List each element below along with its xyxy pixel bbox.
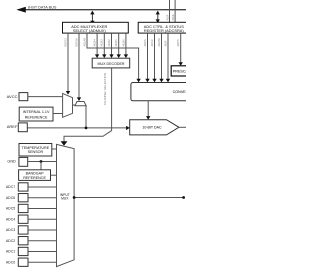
svg-text:ADPS: ADPS — [176, 39, 180, 46]
wire ADC3 to mux — [28, 229, 57, 231]
wire MUX1 — [117, 33, 121, 58]
pin ADC2 — [6, 237, 28, 245]
svg-text:AVCC: AVCC — [7, 94, 18, 99]
svg-text:MUX: MUX — [61, 197, 69, 201]
svg-text:ADIF: ADIF — [163, 40, 167, 46]
svg-text:ADIE: ADIE — [171, 14, 175, 20]
svg-text:AREF: AREF — [7, 124, 18, 129]
svg-text:PRESCALER: PRESCALER — [173, 70, 186, 74]
svg-text:MUX3: MUX3 — [100, 39, 104, 47]
pin GND — [7, 157, 27, 166]
wire GND to bandgap — [40, 162, 42, 170]
wire ADPS to prescaler — [179, 33, 183, 66]
svg-text:ADC3: ADC3 — [6, 228, 15, 232]
wire MUX4 — [95, 33, 99, 58]
block CONVERSION LOGIC — [131, 83, 252, 101]
svg-text:ADC2: ADC2 — [6, 239, 15, 243]
wire ADLAR — [87, 33, 141, 82]
wire ADSC — [152, 33, 156, 82]
svg-text:MUX4: MUX4 — [93, 39, 97, 47]
svg-text:ADSC: ADSC — [150, 39, 154, 46]
wire MUX0 — [124, 33, 128, 58]
wire REFS1 — [66, 33, 70, 95]
wire ADC2 to mux — [28, 240, 57, 242]
svg-text:REFERENCE: REFERENCE — [25, 115, 48, 119]
svg-text:ADC7: ADC7 — [6, 185, 15, 189]
wire ADC6 to mux — [28, 197, 57, 199]
svg-text:MUX DECODER: MUX DECODER — [98, 62, 125, 66]
wire ADC7 to mux — [28, 186, 57, 188]
svg-text:ADEN: ADEN — [143, 39, 147, 46]
register ADCSRA — [138, 22, 200, 33]
wire GND to input mux — [28, 161, 57, 163]
svg-text:CHANNEL SELECTION: CHANNEL SELECTION — [103, 73, 107, 105]
wire temperature sensor to mux — [52, 148, 57, 150]
wire REFS0 — [77, 33, 81, 101]
wire ADMUX bus double-arrow — [90, 11, 94, 25]
prescaler PRESCALER — [171, 66, 196, 76]
pin ADC4 — [6, 215, 28, 223]
pin ADC1 — [6, 247, 28, 255]
pin AVCC — [7, 93, 28, 101]
svg-text:MUX1: MUX1 — [114, 39, 118, 47]
wire bandgap to mux — [51, 174, 57, 176]
svg-text:ADC1: ADC1 — [6, 250, 15, 254]
svg-text:ADC4: ADC4 — [6, 217, 15, 221]
svg-text:MUX0: MUX0 — [121, 39, 125, 47]
dac 10-BIT DAC — [130, 120, 179, 135]
svg-text:10-BIT DAC: 10-BIT DAC — [142, 126, 162, 130]
wire ADC1 to mux — [28, 250, 57, 252]
wire ADC5 to mux — [28, 207, 57, 209]
svg-text:MUX2: MUX2 — [107, 39, 111, 47]
pin ADC6 — [6, 194, 28, 202]
block INTERNAL 1.1V REFERENCE — [19, 107, 53, 121]
wire MUX2 — [109, 33, 113, 58]
svg-text:GND: GND — [7, 160, 16, 164]
node 8-BIT DATA BUS arrowhead — [16, 7, 25, 13]
svg-text:REFS1: REFS1 — [63, 38, 67, 47]
wire ADEN — [145, 33, 149, 82]
wire ADIF to conversion logic — [166, 33, 170, 82]
wire ADIE line to IRQ — [174, 0, 176, 22]
wire ADC0 to mux — [28, 261, 57, 263]
svg-text:ADATE: ADATE — [157, 38, 161, 47]
wire AVCC to reference mux — [28, 96, 63, 98]
wire channel selection — [61, 69, 112, 146]
svg-text:CONVERSION LOGIC: CONVERSION LOGIC — [173, 90, 186, 94]
node mux output junction right — [182, 196, 185, 199]
wire AREF reference line to DAC — [27, 126, 129, 130]
wire internal reference to mux — [53, 113, 63, 115]
decoder MUX DECODER — [92, 58, 130, 68]
svg-text:SENSOR: SENSOR — [28, 150, 44, 154]
svg-text:INTERNAL 1.1V: INTERNAL 1.1V — [23, 110, 50, 114]
svg-text:ADC0: ADC0 — [6, 260, 15, 264]
block TEMPERATURE SENSOR — [19, 144, 52, 157]
block BANDGAP REFERENCE — [19, 170, 51, 181]
mux INPUT MUX — [57, 144, 75, 266]
mux reference output select — [75, 102, 86, 128]
wire DAC output — [179, 126, 186, 128]
wire ADCSRA bus double-arrow — [156, 11, 160, 24]
wire MUX3 — [102, 33, 106, 58]
pin ADC5 — [6, 204, 28, 212]
wire conversion logic to DAC — [146, 101, 150, 120]
node mux output junction left — [73, 196, 76, 199]
wire 8-bit data bus — [18, 9, 186, 11]
pin ADC3 — [6, 226, 28, 234]
svg-text:SELECT (ADMUX): SELECT (ADMUX) — [73, 28, 106, 33]
svg-text:REFS0: REFS0 — [74, 38, 78, 47]
pin AREF — [7, 123, 28, 132]
svg-text:ADLAR: ADLAR — [82, 38, 86, 47]
wire ADATE — [159, 33, 163, 82]
wire ADC multiplexer output — [74, 197, 184, 199]
wire reference mux to second mux — [73, 104, 76, 106]
svg-text:8-BIT DATA BUS: 8-BIT DATA BUS — [28, 6, 57, 10]
svg-text:ADIF: ADIF — [166, 14, 170, 20]
pin ADC7 — [6, 183, 28, 191]
node reference junction — [85, 127, 88, 130]
svg-text:ADC5: ADC5 — [6, 207, 15, 211]
svg-text:REGISTER (ADCSRA): REGISTER (ADCSRA) — [144, 28, 184, 33]
mux reference select trapezoid — [63, 93, 73, 117]
svg-text:ADC6: ADC6 — [6, 196, 15, 200]
pin ADC0 — [6, 258, 28, 266]
wire ADC4 to mux — [28, 218, 57, 220]
wire ADIF line to IRQ — [169, 0, 171, 22]
register ADMUX — [63, 22, 129, 33]
node GND junction — [40, 160, 43, 163]
svg-text:REFERENCE: REFERENCE — [23, 176, 46, 180]
